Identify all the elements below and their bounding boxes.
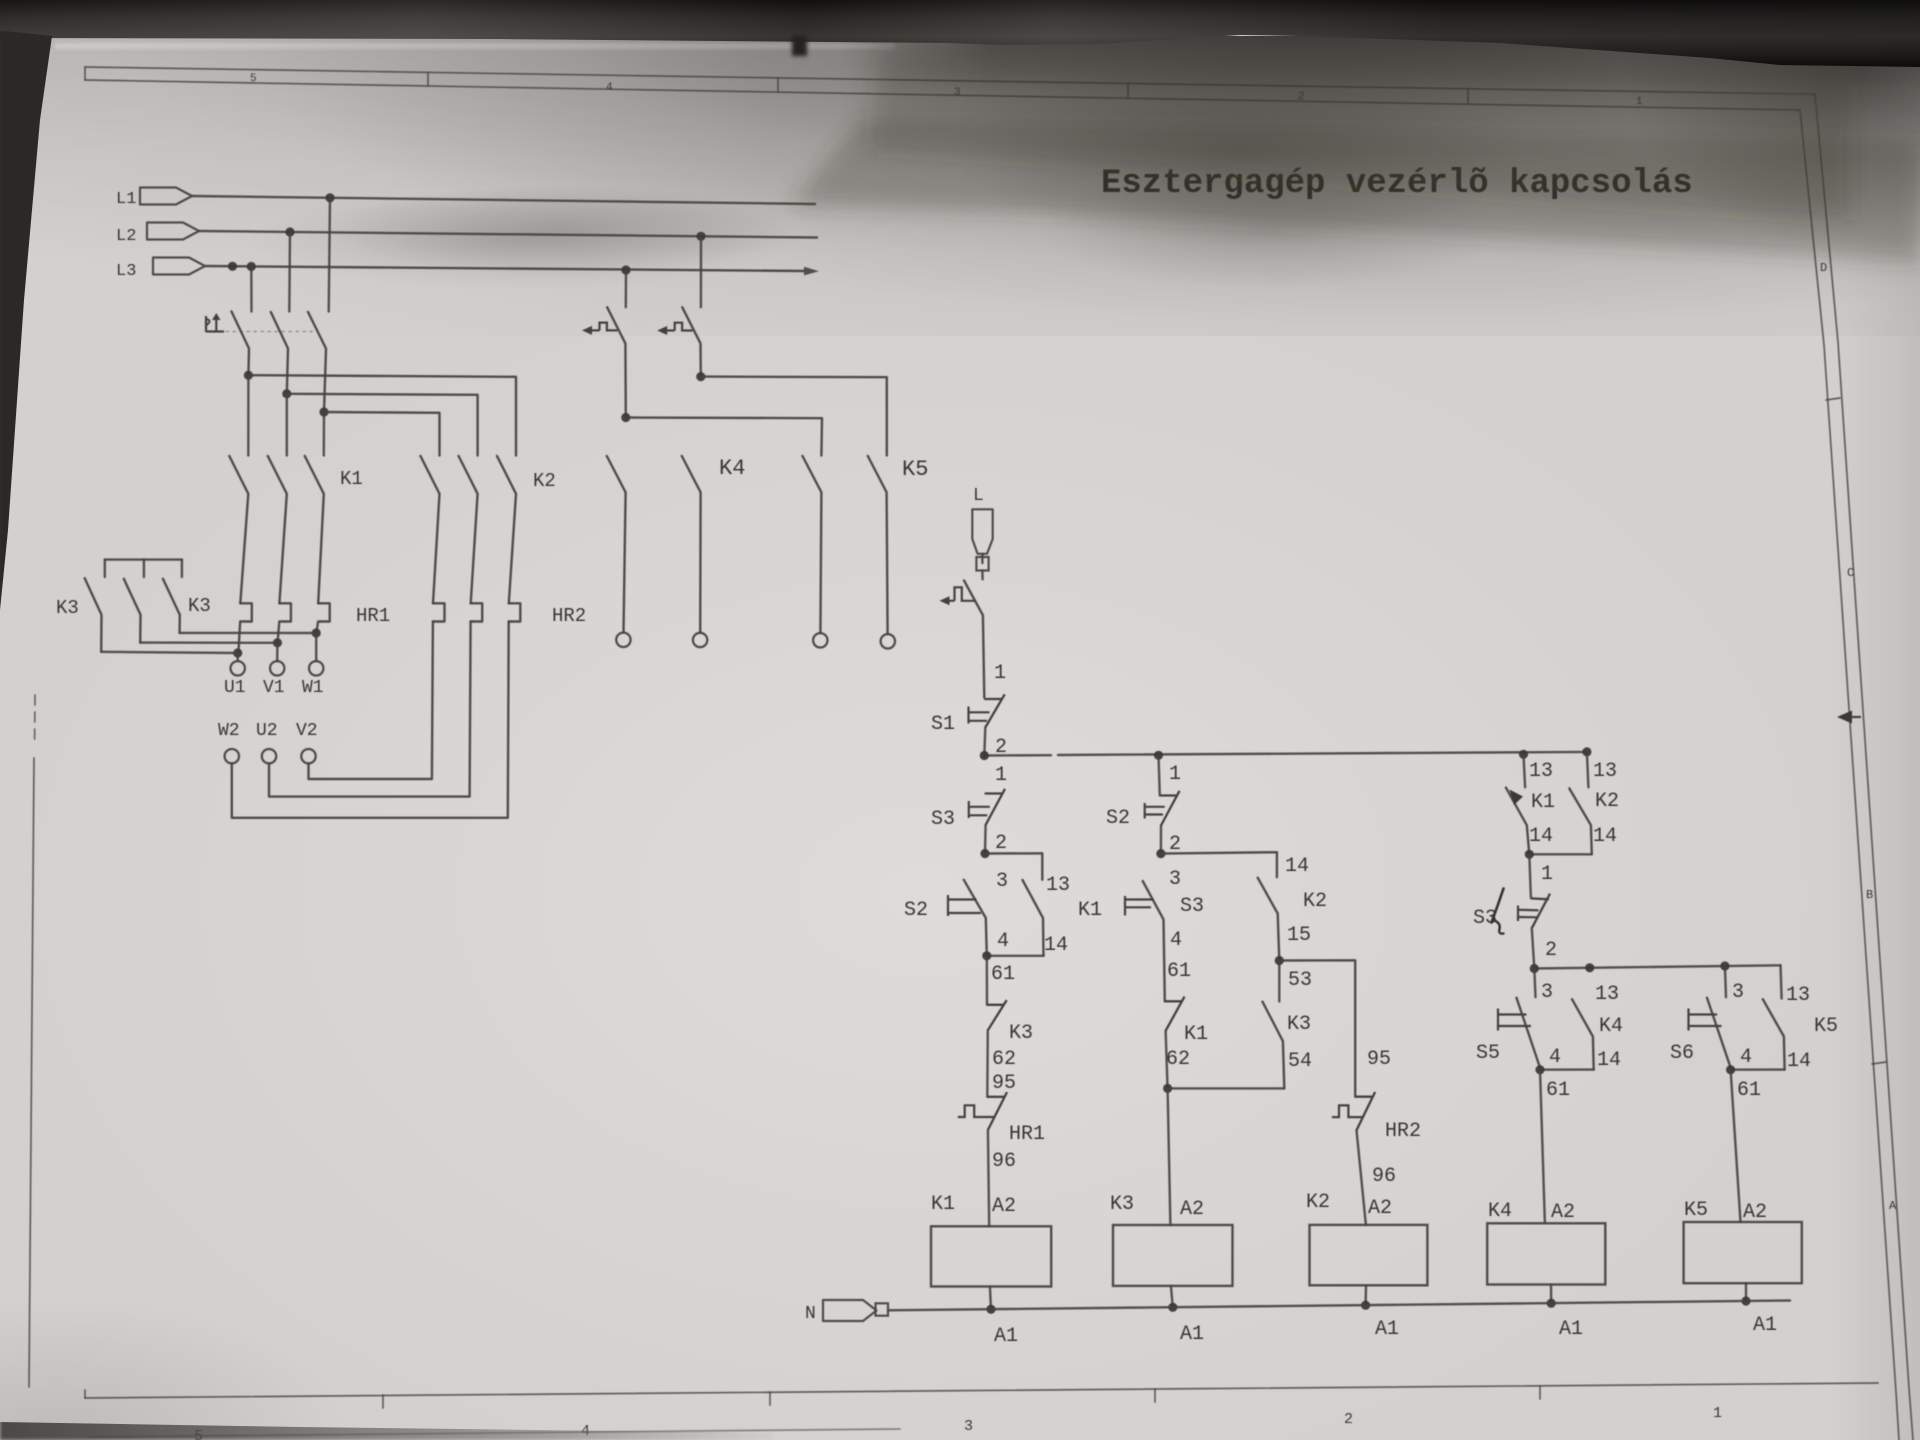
label 95 rung1 (992, 1072, 1016, 1095)
coil K4 (1487, 1223, 1605, 1284)
svg-text:14: 14 (1044, 934, 1068, 957)
svg-text:1: 1 (994, 662, 1006, 685)
node bus K2 aux (1582, 747, 1591, 756)
label 4 rung5 (1740, 1046, 1752, 1069)
svg-text:14: 14 (1529, 825, 1553, 848)
svg-text:53: 53 (1288, 969, 1312, 992)
node aux join right (1525, 850, 1534, 859)
dark shelf band at top (0, 0, 1920, 70)
connector flag L1 (140, 188, 192, 205)
svg-text:L3: L3 (116, 262, 136, 281)
wire L1 rail (192, 196, 815, 204)
node L2 junction K5 disconnect (696, 232, 705, 241)
label rung1 wire 2 (995, 832, 1007, 855)
node K4 branch (621, 413, 630, 422)
label K2 main (533, 470, 556, 492)
label 15 rung2 (1287, 924, 1311, 947)
label S3 rung1 (931, 808, 955, 831)
label wire 2 above bus (995, 736, 1007, 759)
label A2 coil K3 (1180, 1198, 1204, 1221)
svg-text:3: 3 (1541, 981, 1553, 1004)
neutral rail wire (888, 1301, 1790, 1311)
wire K1 NC to node (1166, 1031, 1168, 1089)
svg-text:HR2: HR2 (552, 605, 586, 627)
label rung1 wire 1 (995, 764, 1007, 787)
zone letter A (1889, 1199, 1897, 1213)
label K2 aux rung2 (1303, 890, 1327, 913)
svg-text:W1: W1 (302, 678, 324, 698)
label 14 rung2 (1285, 855, 1309, 878)
label S5 (1476, 1042, 1500, 1065)
terminal K4 pole 1 (616, 633, 630, 647)
wire node to S3stop right (1529, 854, 1531, 898)
svg-text:4: 4 (1549, 1046, 1561, 1069)
connector N square (876, 1303, 889, 1315)
contactor K1 pole 1 contact (229, 456, 248, 603)
frame right zone tick B/A (1872, 1062, 1886, 1064)
zone letter D (1820, 261, 1827, 275)
wire phase B drop to K1 pole 2 (286, 394, 288, 456)
pushbutton S3 contact rung2 (1143, 881, 1165, 1001)
svg-text:A2: A2 (992, 1195, 1016, 1218)
contactor K2 pole 3 contact (497, 456, 516, 603)
label K3 NC rung1 (1009, 1022, 1033, 1045)
svg-text:A2: A2 (1368, 1197, 1392, 1220)
disconnect switch right blade (682, 307, 701, 376)
label 62 rung1 (992, 1048, 1016, 1071)
wire bus to K1 aux right (1524, 754, 1526, 787)
svg-text:A1: A1 (1559, 1318, 1583, 1341)
right sub-bus (1534, 965, 1780, 968)
frame top-left corner join (84, 67, 86, 80)
svg-text:Esztergagép vezérlõ kapcsolás: Esztergagép vezérlõ kapcsolás (1101, 165, 1693, 203)
node rung5 join (1726, 1065, 1735, 1074)
contactor K4 pole 2 contact (803, 456, 822, 633)
wire L2 drop to main switch (288, 232, 291, 312)
svg-text:95: 95 (1367, 1048, 1391, 1071)
node phase B after switch (282, 389, 291, 398)
wire K3 54 to rung2 node (1168, 1087, 1285, 1089)
label 61 rung5 (1737, 1079, 1761, 1102)
zone letter C (1847, 566, 1854, 580)
wire node to K3 NC (986, 956, 989, 1005)
svg-text:U2: U2 (256, 721, 278, 741)
handwritten cross stroke 1 (1492, 889, 1504, 923)
svg-text:K3: K3 (1009, 1022, 1033, 1045)
svg-text:1: 1 (995, 764, 1007, 787)
wire phase A drop to K1 pole 1 (247, 375, 249, 455)
label rung1 wire 4 (997, 930, 1009, 953)
wire coil K5 to N (1745, 1283, 1747, 1301)
svg-text:A1: A1 (1375, 1318, 1399, 1341)
svg-text:K2: K2 (1303, 890, 1327, 913)
wire L3 rail with end arrow (205, 266, 819, 275)
label A2 coil K1 (992, 1195, 1016, 1218)
label 3 rung4 (1541, 981, 1553, 1004)
svg-text:S2: S2 (904, 899, 928, 922)
pushbutton S5 contact (1517, 998, 1541, 1070)
label K1 aux rung1 (1078, 899, 1102, 922)
thermal relay HR1 element 3 (316, 603, 329, 633)
label L3 (116, 262, 136, 281)
node rung1 branch (980, 849, 989, 858)
fuse F1 base square (976, 557, 988, 571)
node L1 junction (325, 193, 334, 202)
wire node53 branch to HR2 (1279, 960, 1355, 1096)
pushbutton S6 actuator (1689, 1009, 1722, 1031)
disconnect switch left blade (607, 307, 626, 417)
svg-text:D: D (1820, 261, 1827, 275)
contact K3 NO 53-54 (1263, 1002, 1285, 1089)
label 13 rung1 (1046, 874, 1070, 897)
contact K5 aux NO (1763, 999, 1785, 1069)
frame right border inner line (1800, 110, 1899, 1440)
zone number 2 top (1298, 91, 1305, 103)
label K4 aux (1599, 1015, 1623, 1038)
node bus K1 aux (1519, 750, 1528, 759)
svg-text:2: 2 (1298, 91, 1305, 103)
contact K1 aux arrow (1510, 790, 1524, 806)
label 13 rung4 (1595, 983, 1619, 1006)
label A1 coil K4 (1559, 1318, 1583, 1341)
contact HR2 trip actuator (1332, 1105, 1363, 1117)
label S3 rung2 (1180, 895, 1204, 918)
label U2 (256, 721, 278, 741)
label L1 (116, 190, 136, 209)
label rung2 wire 4 (1170, 929, 1182, 952)
label L2 (116, 227, 136, 246)
pushbutton S3 actuator rung2 (1125, 896, 1154, 916)
contact K4 aux NO (1572, 999, 1594, 1069)
pushbutton S2 actuator rung1 (948, 895, 981, 916)
svg-text:K3: K3 (1110, 1193, 1134, 1216)
svg-text:A: A (1889, 1199, 1897, 1213)
wire K3 pole 3 to W1 (180, 632, 317, 634)
svg-text:54: 54 (1288, 1050, 1312, 1073)
label K1 aux right (1531, 791, 1555, 814)
contact HR2 NC trip (1355, 1092, 1375, 1130)
shadow smudge overlay above ink (0, 36, 1920, 261)
node rung1 join (982, 951, 991, 960)
svg-text:S5: S5 (1476, 1042, 1500, 1065)
wire subbus to S6 (1725, 966, 1726, 997)
wire coil K4 to N (1550, 1285, 1553, 1304)
pushbutton S3stop actuator (1518, 906, 1539, 922)
svg-text:A2: A2 (1743, 1201, 1767, 1224)
label 4 rung4 (1549, 1046, 1561, 1069)
terminal V2 (301, 749, 315, 763)
svg-text:N: N (805, 1304, 816, 1324)
label K1 main (340, 468, 363, 490)
frame top border inner line (85, 80, 1800, 110)
frame centering arrow right (1837, 711, 1861, 724)
svg-text:96: 96 (1372, 1165, 1396, 1188)
svg-text:3: 3 (996, 870, 1008, 893)
wire K3 NC to HR1 contact (986, 1030, 989, 1097)
contact K3 NC rung1 (987, 1000, 1007, 1030)
main switch Q1 pole 2 blade (271, 312, 288, 394)
label 95 rung3 (1367, 1048, 1391, 1071)
svg-text:A2: A2 (1551, 1201, 1575, 1224)
svg-text:61: 61 (1546, 1079, 1570, 1102)
label HR2 (552, 605, 586, 627)
svg-text:K4: K4 (719, 456, 745, 481)
terminal U1 (231, 661, 245, 675)
node U1 star link (233, 648, 242, 657)
contactor K3 bridge bar (105, 558, 182, 560)
svg-text:1: 1 (1541, 863, 1553, 886)
terminal W2 (225, 749, 239, 763)
label HR1 contact (1009, 1123, 1045, 1146)
main switch Q1 linkage dashed (205, 331, 317, 333)
label 61 rung2 (1167, 960, 1191, 983)
wire L1 drop to main switch (329, 198, 330, 312)
thermal relay HR1 element 1 (238, 603, 251, 653)
svg-text:15: 15 (1287, 924, 1311, 947)
label rung1 wire 3 (996, 870, 1008, 893)
svg-text:1: 1 (1636, 96, 1643, 108)
label HR1 (356, 605, 390, 627)
node N coil K4 (1547, 1299, 1556, 1308)
frame zone tick top 4/3 (777, 78, 779, 92)
frame left border dash (34, 695, 36, 742)
node bus rung1 (980, 751, 989, 760)
contactor K2 pole 2 contact (459, 456, 478, 603)
frame zone tick bottom 5/4 (382, 1395, 384, 1408)
svg-text:1: 1 (1169, 763, 1181, 786)
svg-text:3: 3 (964, 1418, 973, 1435)
svg-text:K1: K1 (1078, 899, 1102, 922)
svg-text:62: 62 (992, 1048, 1016, 1071)
contactor K4 pole 1 contact (607, 456, 626, 632)
pushbutton S6 contact (1707, 998, 1731, 1070)
node rung2 coil (1163, 1084, 1172, 1093)
wire L2 drop to K5 disconnect (700, 236, 702, 307)
svg-text:L: L (973, 486, 984, 506)
zone number 4 top (606, 82, 613, 94)
wire HR2 to coil K2 (1357, 1130, 1366, 1225)
svg-text:13: 13 (1786, 984, 1810, 1007)
wire coil K1 to N (990, 1287, 991, 1310)
svg-text:K4: K4 (1599, 1015, 1623, 1038)
label 54 (1288, 1050, 1312, 1073)
terminal U2 (262, 749, 276, 763)
frame right zone tick D/C (1826, 398, 1840, 400)
label rung2 wire 2 (1169, 833, 1181, 856)
title Esztergagep vezerlo kapcsolas (1101, 165, 1693, 203)
svg-text:4: 4 (1740, 1046, 1752, 1069)
contactor K3 pole 2 contact (124, 579, 141, 643)
label 53 (1288, 969, 1312, 992)
contactor K5 pole 2 contact (868, 456, 888, 634)
disconnect switch right actuator (657, 323, 692, 335)
connector flag N (823, 1300, 877, 1321)
wire coil K2 to N (1364, 1285, 1367, 1305)
label L control supply (973, 486, 984, 506)
label A1 coil K3 (1180, 1323, 1204, 1346)
contactor K2 pole 1 contact (421, 456, 440, 603)
connector flag L2 (147, 223, 199, 240)
zone number 1 bottom (1713, 1405, 1722, 1422)
svg-text:K1: K1 (1184, 1023, 1208, 1046)
svg-text:3: 3 (1169, 868, 1181, 891)
label wire 2 right (1545, 939, 1557, 962)
pushbutton S1 contact (984, 694, 1004, 727)
label 61 rung1 (991, 963, 1015, 986)
node N coil K5 (1741, 1296, 1750, 1305)
node W1 star link (312, 628, 321, 637)
zone number 4 bottom (581, 1423, 590, 1440)
node bus rung2 (1154, 751, 1163, 760)
thermal relay HR2 element 3 (509, 603, 521, 621)
zone number 3 top (954, 87, 961, 99)
svg-text:14: 14 (1597, 1049, 1621, 1072)
thermal relay HR1 element 2 (278, 603, 291, 642)
frame bottom zone line (85, 1383, 1878, 1398)
svg-text:13: 13 (1595, 983, 1619, 1006)
svg-text:K3: K3 (56, 597, 79, 619)
contactor K3 pole 1 contact (85, 578, 102, 652)
svg-text:U1: U1 (224, 678, 246, 698)
svg-text:K1: K1 (340, 468, 363, 490)
label coil K2 (1306, 1191, 1330, 1214)
label V1 (263, 678, 285, 698)
label A2 coil K4 (1551, 1201, 1575, 1224)
wire V1 dot to terminal (276, 643, 279, 661)
label W1 (302, 678, 324, 698)
svg-text:14: 14 (1787, 1050, 1811, 1073)
svg-text:S3: S3 (931, 808, 955, 831)
svg-text:62: 62 (1166, 1048, 1190, 1071)
wire S1 to bus (984, 728, 985, 756)
svg-text:K3: K3 (1287, 1013, 1311, 1036)
contactor K5 pole 1 contact (682, 456, 701, 633)
svg-text:K1: K1 (931, 1193, 955, 1216)
svg-text:HR2: HR2 (1385, 1120, 1421, 1143)
svg-text:95: 95 (992, 1072, 1016, 1095)
svg-text:4: 4 (997, 930, 1009, 953)
handwritten cross stroke 2 (1495, 921, 1504, 934)
label S3 crossed right (1473, 907, 1497, 930)
wire phase C drop to K1 pole 3 (323, 412, 326, 456)
contact K1 aux NO rung1 (1023, 880, 1044, 956)
label coil K5 (1684, 1199, 1708, 1222)
wire bus to K2 aux right (1587, 752, 1589, 787)
svg-text:2: 2 (995, 832, 1007, 855)
contact K2 aux NO right (1569, 788, 1592, 854)
wire node to coil K5 (1731, 1070, 1741, 1222)
connector flag L3 (153, 258, 205, 275)
label K4 main (719, 456, 745, 481)
label K5 main (902, 457, 928, 482)
node rung2 branch (1156, 849, 1165, 858)
contact S3stop NC right (1531, 894, 1550, 929)
label A1 coil K1 (994, 1325, 1018, 1348)
zone number 2 bottom (1344, 1411, 1353, 1428)
frame bottom outer line (88, 1429, 900, 1437)
frame right border outer line (1815, 94, 1913, 1440)
wire S3stop to right bus (1532, 928, 1535, 968)
wire node to coil K3 (1168, 1088, 1171, 1225)
terminal K5 pole 1 (693, 633, 707, 647)
frame left border line (29, 758, 34, 1387)
svg-text:HR1: HR1 (1009, 1123, 1045, 1146)
label 96 rung3 (1372, 1165, 1396, 1188)
wire subbus corner to K5 aux (1781, 965, 1782, 998)
label 3 rung5 (1732, 981, 1744, 1004)
zone number 3 bottom (964, 1418, 973, 1435)
node N coil K1 (986, 1305, 995, 1314)
terminal K4 pole 2 (813, 633, 827, 647)
frame zone tick top 2/1 (1467, 89, 1469, 103)
svg-text:61: 61 (1737, 1079, 1761, 1102)
label A2 coil K5 (1743, 1201, 1767, 1224)
contact K2 aux NO rung2 (1258, 878, 1280, 961)
label 62 rung2 (1166, 1048, 1190, 1071)
svg-text:13: 13 (1046, 874, 1070, 897)
contact K1 NC rung2 (1165, 997, 1185, 1031)
wire K3 pole 1 to U1 (101, 652, 238, 653)
disconnect switch left actuator (582, 323, 617, 335)
control bus segment right (1058, 752, 1587, 755)
label K3 left (56, 597, 79, 619)
label 96 rung1 (992, 1150, 1016, 1173)
node N coil K3 (1168, 1303, 1177, 1312)
svg-text:14: 14 (1285, 855, 1309, 878)
label 14 rung4 (1597, 1049, 1621, 1072)
frame zone tick bottom 2/1 (1539, 1386, 1541, 1399)
contactor K3 pole 3 contact (163, 579, 180, 633)
svg-text:S1: S1 (931, 713, 955, 736)
svg-text:2: 2 (1344, 1411, 1353, 1428)
node L3 junction K4 disconnect (621, 265, 630, 274)
wire fuse to control switch (981, 571, 984, 580)
zone letter B (1866, 888, 1873, 902)
node L3 junction main switch (247, 262, 256, 271)
svg-text:S3: S3 (1180, 895, 1204, 918)
svg-text:K2: K2 (533, 470, 556, 492)
wire HR2 pole 2 to U2 (269, 622, 471, 797)
frame zone tick bottom 4/3 (769, 1392, 771, 1405)
svg-text:5: 5 (194, 1428, 203, 1440)
wire phase A branch to K2 pole 3 (248, 375, 516, 455)
wire node53 to K3 contact (1278, 961, 1280, 1002)
control bus segment left (984, 754, 1051, 757)
wire phase B branch to K2 pole 2 (287, 394, 478, 456)
contactor K3 stub 1 (104, 560, 106, 577)
dark wedge along left paper edge (0, 30, 60, 680)
label 13 K1 aux right (1529, 760, 1553, 783)
node phase A after switch (244, 371, 253, 380)
svg-text:K1: K1 (1531, 791, 1555, 814)
thermal relay HR2 element 1 (433, 603, 445, 621)
svg-text:96: 96 (992, 1150, 1016, 1173)
pushbutton S2 actuator rung2 (1145, 803, 1165, 819)
frame top border outer line (85, 67, 1815, 94)
svg-text:2: 2 (995, 736, 1007, 759)
label K5 aux (1814, 1015, 1838, 1038)
wire HR1 to coil K1 (988, 1130, 989, 1226)
terminal K5 pole 2 (881, 634, 895, 648)
label 14 rung5 (1787, 1050, 1811, 1073)
svg-text:4: 4 (581, 1423, 590, 1440)
label K2 aux right (1595, 790, 1619, 813)
control disconnect switch actuator (940, 587, 976, 605)
wire branch to K2 aux (1161, 852, 1277, 877)
label 14 K2 aux right (1593, 825, 1617, 848)
label K3 NO (1287, 1013, 1311, 1036)
node V1 star link (273, 638, 282, 647)
